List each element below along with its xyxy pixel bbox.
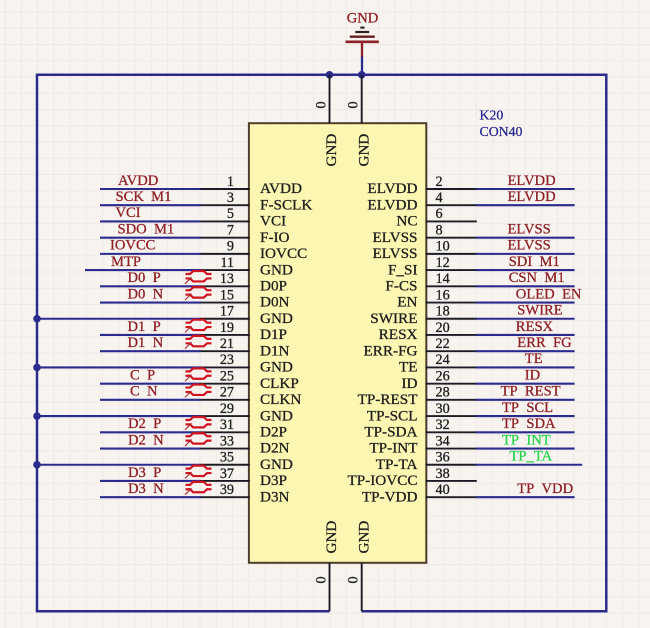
junction left bus / pin 35 wire	[33, 461, 41, 469]
svg-text:GND: GND	[323, 521, 340, 554]
differential pair directive on pin 31	[185, 417, 212, 430]
pin 30 (TP-SCL)	[367, 401, 477, 424]
svg-text:22: 22	[436, 336, 450, 352]
pin 17 (GND)	[200, 304, 293, 327]
svg-text:C N: C N	[130, 384, 158, 400]
pin 4 (ELVDD)	[367, 190, 476, 213]
pin 11 (GND)	[200, 255, 293, 278]
pin 0 (GND, bottom right)	[346, 521, 373, 612]
svg-text:TE: TE	[399, 359, 418, 376]
svg-text:D1 N: D1 N	[128, 335, 164, 351]
wire net ELVDD	[476, 188, 575, 190]
differential pair directive on pin 13	[185, 271, 212, 284]
svg-text:D1N: D1N	[260, 342, 290, 359]
svg-text:C P: C P	[130, 367, 155, 383]
wire net RESX	[476, 334, 575, 336]
wire net VCI	[100, 220, 201, 222]
svg-text:TP-SDA: TP-SDA	[364, 424, 417, 441]
wire net D0 P	[100, 285, 201, 287]
svg-text:MTP: MTP	[111, 254, 141, 270]
power port GND (earth symbol)	[346, 11, 379, 58]
svg-text:CON40: CON40	[480, 124, 523, 139]
pin 39 (D3N)	[200, 482, 290, 505]
wire net SDI M1	[476, 269, 575, 271]
svg-text:37: 37	[220, 466, 234, 482]
wire net ELVSS	[476, 253, 575, 255]
svg-text:TE: TE	[525, 351, 543, 367]
pin 5 (VCI)	[200, 206, 287, 229]
pin 1 (AVDD)	[200, 174, 302, 197]
svg-text:D2 P: D2 P	[128, 416, 161, 432]
pin 9 (IOVCC)	[200, 239, 308, 262]
pin 13 (D0P)	[200, 271, 288, 294]
pin 15 (D0N)	[200, 287, 290, 310]
wire net MTP	[85, 269, 201, 271]
wire right vertical GND bus	[605, 75, 608, 611]
svg-text:K20: K20	[480, 108, 504, 123]
svg-text:31: 31	[220, 417, 234, 433]
wire net ID	[476, 383, 575, 385]
pin 8 (ELVSS)	[372, 222, 476, 245]
svg-text:GND: GND	[323, 134, 340, 167]
svg-text:TP-IOVCC: TP-IOVCC	[347, 472, 417, 489]
wire net C P	[100, 383, 201, 385]
svg-text:OLED EN: OLED EN	[516, 286, 582, 302]
svg-text:GND: GND	[260, 310, 293, 327]
svg-text:TP-TA: TP-TA	[376, 456, 418, 473]
wire net C N	[100, 399, 201, 401]
svg-text:ELVDD: ELVDD	[508, 189, 556, 205]
svg-text:27: 27	[220, 385, 234, 401]
differential pair directive on pin 37	[185, 466, 212, 479]
svg-text:8: 8	[436, 222, 443, 238]
svg-text:23: 23	[220, 352, 234, 368]
wire bottom horizontal GND bus (right segment)	[362, 610, 608, 613]
pin 14 (F-CS)	[385, 271, 476, 294]
wire top horizontal GND bus	[36, 74, 608, 77]
svg-text:D0 N: D0 N	[128, 286, 164, 302]
svg-text:14: 14	[436, 271, 450, 287]
svg-text:GND: GND	[355, 521, 372, 554]
wire net TP SCL	[476, 415, 575, 417]
pin 25 (CLKP)	[200, 368, 299, 391]
wire net SCK M1	[100, 204, 201, 206]
pin 10 (ELVSS)	[372, 239, 476, 262]
svg-text:ELVDD: ELVDD	[367, 196, 417, 213]
svg-text:TP SDA: TP SDA	[502, 416, 556, 432]
wire net TP SDA	[476, 431, 575, 433]
wire pin 23 to left GND bus	[37, 366, 201, 368]
differential pair directive on pin 21	[185, 336, 212, 349]
pin 35 (GND)	[200, 450, 293, 473]
pin 12 (F_SI)	[388, 255, 477, 278]
pin 24 (TE)	[399, 352, 477, 375]
differential pair directive on pin 33	[185, 433, 212, 446]
svg-text:D1 P: D1 P	[128, 319, 161, 335]
junction left bus / pin 29 wire	[33, 412, 41, 420]
svg-text:SCK M1: SCK M1	[116, 189, 172, 205]
pin 7 (F-IO)	[200, 222, 290, 245]
svg-text:RESX: RESX	[379, 326, 418, 343]
svg-text:ELVSS: ELVSS	[508, 221, 551, 237]
svg-text:TP VDD: TP VDD	[517, 481, 573, 497]
wire pin 29 to left GND bus	[37, 415, 201, 417]
wire net D1 P	[100, 334, 201, 336]
differential pair directive on pin 27	[185, 385, 212, 398]
svg-text:25: 25	[220, 368, 234, 384]
svg-text:TP-SCL: TP-SCL	[367, 407, 418, 424]
svg-text:NC: NC	[396, 213, 417, 230]
svg-text:13: 13	[220, 271, 234, 287]
svg-text:VCI: VCI	[260, 213, 286, 230]
pin 31 (D2P)	[200, 417, 288, 440]
svg-text:VCI: VCI	[116, 205, 141, 221]
svg-text:D2P: D2P	[260, 424, 287, 441]
wire net IOVCC	[100, 253, 201, 255]
wire net TP VDD	[476, 496, 575, 498]
svg-text:GND: GND	[260, 456, 293, 473]
pin 28 (TP-REST)	[358, 385, 477, 408]
svg-text:D2N: D2N	[260, 440, 290, 457]
svg-text:11: 11	[220, 255, 234, 271]
pin 0 (GND, bottom left)	[314, 521, 341, 612]
svg-text:10: 10	[436, 239, 450, 255]
junction top bus / pin 0 left	[326, 71, 334, 79]
wire net D2 N	[100, 447, 201, 449]
wire pin 17 to left GND bus	[37, 318, 201, 320]
svg-text:0: 0	[314, 576, 330, 583]
pin 40 (TP-VDD)	[362, 482, 477, 505]
pin 3 (F-SCLK)	[200, 190, 313, 213]
wire net TP_TA	[476, 464, 582, 466]
pin 27 (CLKN)	[200, 385, 302, 408]
svg-text:ID: ID	[401, 375, 417, 392]
wire net TP REST	[476, 399, 575, 401]
wire pin 35 to left GND bus	[37, 464, 201, 466]
wire from GND power port to top bus	[361, 57, 363, 75]
svg-text:D3 N: D3 N	[128, 481, 164, 497]
svg-text:17: 17	[220, 304, 234, 320]
pin 0 (GND, top right)	[346, 75, 373, 167]
wire net TE	[476, 366, 575, 368]
pin 36 (TP-TA)	[376, 450, 477, 473]
wire net ELVDD	[476, 204, 575, 206]
wire net TP INT	[476, 447, 575, 449]
pin 23 (GND)	[200, 352, 293, 375]
svg-text:SDI M1: SDI M1	[509, 254, 560, 270]
svg-text:21: 21	[220, 336, 234, 352]
wire net CSN M1	[476, 285, 575, 287]
svg-text:GND: GND	[260, 359, 293, 376]
wire net SDO M1	[100, 237, 201, 239]
svg-text:D3P: D3P	[260, 472, 287, 489]
svg-text:35: 35	[220, 450, 234, 466]
svg-text:12: 12	[436, 255, 450, 271]
svg-text:6: 6	[436, 206, 443, 222]
svg-text:IOVCC: IOVCC	[110, 238, 155, 254]
wire net ELVSS	[476, 237, 575, 239]
wire left vertical GND bus	[36, 75, 39, 611]
svg-text:SWIRE: SWIRE	[517, 303, 562, 319]
svg-text:D1P: D1P	[260, 326, 287, 343]
wire net ERR FG	[476, 350, 575, 352]
pin 18 (SWIRE)	[370, 304, 477, 327]
svg-text:GND: GND	[260, 261, 293, 278]
pin 37 (D3P)	[200, 466, 288, 489]
svg-text:36: 36	[436, 450, 450, 466]
svg-text:IOVCC: IOVCC	[260, 245, 307, 262]
svg-text:CSN M1: CSN M1	[509, 270, 565, 286]
wire net D1 N	[100, 350, 201, 352]
svg-text:GND: GND	[260, 407, 293, 424]
svg-text:3: 3	[227, 190, 234, 206]
svg-text:EN: EN	[397, 294, 417, 311]
svg-text:30: 30	[436, 401, 450, 417]
svg-text:F-CS: F-CS	[385, 278, 417, 295]
wire net OLED EN	[476, 301, 575, 303]
pin 32 (TP-SDA)	[364, 417, 476, 440]
svg-text:ERR-FG: ERR-FG	[363, 342, 417, 359]
svg-text:ELVDD: ELVDD	[367, 180, 417, 197]
wire bottom horizontal GND bus (left segment)	[36, 610, 330, 613]
svg-text:9: 9	[227, 239, 234, 255]
pin 33 (D2N)	[200, 433, 290, 456]
svg-text:F_SI: F_SI	[388, 261, 418, 278]
svg-text:CLKN: CLKN	[260, 391, 301, 408]
svg-text:0: 0	[346, 101, 362, 108]
svg-text:GND: GND	[347, 11, 379, 27]
pin 2 (ELVDD)	[367, 174, 476, 197]
svg-text:TP-INT: TP-INT	[369, 440, 418, 457]
svg-text:TP_TA: TP_TA	[510, 449, 553, 465]
svg-text:20: 20	[436, 320, 450, 336]
svg-text:TP-REST: TP-REST	[358, 391, 419, 408]
svg-text:ELVDD: ELVDD	[508, 173, 556, 189]
differential pair directive on pin 25	[185, 368, 212, 381]
svg-text:D3 P: D3 P	[128, 465, 161, 481]
svg-text:TP-VDD: TP-VDD	[362, 488, 418, 505]
wire net D2 P	[100, 431, 201, 433]
svg-text:16: 16	[436, 287, 450, 303]
svg-text:ELVSS: ELVSS	[372, 245, 417, 262]
svg-text:TP SCL: TP SCL	[502, 400, 553, 416]
pin 0 (GND, top left)	[314, 75, 341, 167]
svg-text:AVDD: AVDD	[260, 180, 302, 197]
wire net D0 N	[100, 301, 201, 303]
svg-text:19: 19	[220, 320, 234, 336]
pin 6 (NC)	[396, 206, 476, 229]
svg-text:0: 0	[346, 576, 362, 583]
svg-text:28: 28	[436, 385, 450, 401]
svg-text:SDO M1: SDO M1	[118, 221, 175, 237]
svg-text:32: 32	[436, 417, 450, 433]
svg-text:RESX: RESX	[516, 319, 554, 335]
svg-text:ERR FG: ERR FG	[517, 335, 572, 351]
pin 34 (TP-INT)	[369, 433, 476, 456]
pin 21 (D1N)	[200, 336, 290, 359]
svg-text:ELVSS: ELVSS	[372, 229, 417, 246]
svg-text:F-IO: F-IO	[260, 229, 290, 246]
svg-text:39: 39	[220, 482, 234, 498]
pin 16 (EN)	[397, 287, 477, 310]
svg-text:4: 4	[436, 190, 443, 206]
svg-text:40: 40	[436, 482, 450, 498]
svg-text:1: 1	[227, 174, 234, 190]
junction left bus / pin 17 wire	[33, 315, 41, 323]
wire net AVDD	[100, 188, 201, 190]
wire net D3 N	[100, 496, 201, 498]
pin 29 (GND)	[200, 401, 293, 424]
svg-text:38: 38	[436, 466, 450, 482]
wire net D3 P	[100, 480, 201, 482]
svg-text:24: 24	[436, 352, 450, 368]
svg-text:33: 33	[220, 433, 234, 449]
svg-text:29: 29	[220, 401, 234, 417]
junction top bus / GND port	[358, 71, 366, 79]
svg-text:F-SCLK: F-SCLK	[260, 196, 312, 213]
svg-text:7: 7	[227, 222, 234, 238]
pin 22 (ERR-FG)	[363, 336, 476, 359]
svg-text:ID: ID	[525, 367, 540, 383]
svg-text:D0 P: D0 P	[128, 270, 161, 286]
svg-text:26: 26	[436, 368, 450, 384]
svg-text:15: 15	[220, 287, 234, 303]
differential pair directive on pin 39	[185, 482, 212, 495]
svg-text:D3N: D3N	[260, 488, 290, 505]
wire net SWIRE	[476, 318, 575, 320]
svg-text:CLKP: CLKP	[260, 375, 299, 392]
pin 26 (ID)	[401, 368, 476, 391]
differential pair directive on pin 15	[185, 287, 212, 300]
connector U? K20 body	[249, 123, 426, 563]
svg-text:GND: GND	[355, 134, 372, 167]
svg-text:34: 34	[436, 433, 450, 449]
pin 38 (TP-IOVCC)	[347, 466, 476, 489]
svg-text:5: 5	[227, 206, 234, 222]
svg-text:D0P: D0P	[260, 278, 287, 295]
svg-text:D2 N: D2 N	[128, 432, 164, 448]
svg-text:ELVSS: ELVSS	[508, 238, 551, 254]
svg-text:TP INT: TP INT	[502, 432, 551, 448]
svg-text:TP REST: TP REST	[501, 384, 561, 400]
svg-text:SWIRE: SWIRE	[370, 310, 417, 327]
pin 19 (D1P)	[200, 320, 288, 343]
svg-text:18: 18	[436, 304, 450, 320]
pin 20 (RESX)	[379, 320, 477, 343]
svg-text:2: 2	[436, 174, 443, 190]
svg-text:AVDD: AVDD	[118, 173, 158, 189]
svg-text:0: 0	[314, 101, 330, 108]
differential pair directive on pin 19	[185, 320, 212, 333]
junction left bus / pin 23 wire	[33, 364, 41, 372]
svg-text:D0N: D0N	[260, 294, 290, 311]
